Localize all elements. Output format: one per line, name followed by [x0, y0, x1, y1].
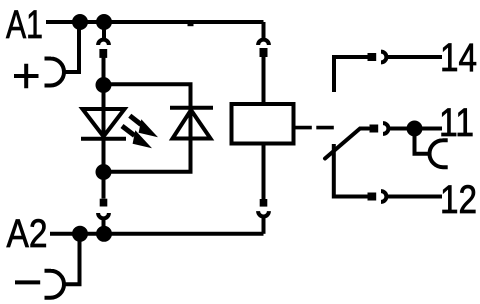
plug-in connection socket (coil input, left)	[98, 40, 109, 45]
plug-in connection socket (contact 14)	[381, 52, 386, 63]
plug-in connection pin (contact 11)	[370, 125, 379, 133]
plug-in connection pin (contact 14)	[368, 53, 377, 61]
polarity sign +	[14, 64, 39, 88]
wire A1 junction to plug-in connection	[102, 22, 106, 40]
junction node above LED	[96, 77, 112, 93]
plug-in connection pin (coil output, left)	[100, 199, 108, 207]
node tick on A1 rail	[188, 22, 194, 26]
wire A1 rail	[46, 20, 264, 24]
wire socket to label 14	[388, 55, 443, 59]
LED light arrow 2	[122, 126, 152, 148]
wire A2 rail	[50, 232, 264, 236]
wire LED branch vertical	[102, 85, 106, 172]
contact 12 fixed terminal (NC) wire	[334, 144, 368, 197]
wire socket to A2 junction	[102, 218, 106, 233]
plug-in connection pin (coil bottom)	[260, 199, 268, 207]
junction on A1 rail (left)	[72, 14, 88, 30]
clamp terminal 11 (cage clamp arc)	[430, 140, 448, 167]
svg-text:A2: A2	[7, 212, 48, 256]
wire socket to label 11	[390, 127, 443, 131]
wire from A1 junction down to + clamp	[64, 22, 80, 72]
wire socket to label 12	[388, 195, 443, 199]
plug-in connection socket (coil top)	[258, 40, 269, 45]
plug-in connection pin (coil input, left)	[99, 49, 107, 58]
clamp terminal - (cage clamp arc)	[45, 271, 65, 298]
mechanical link (dashed) coil to contact	[296, 126, 334, 130]
contact 14 fixed terminal (NO) wire	[334, 57, 368, 92]
junction on A1 rail (right)	[96, 14, 112, 30]
plug-in connection socket (contact 11)	[383, 123, 388, 134]
junction on A2 rail (right)	[96, 226, 112, 242]
free-wheeling diode	[170, 108, 213, 139]
wire junction to free-wheeling diode branch	[104, 84, 191, 172]
LED indicator diode	[81, 109, 126, 139]
wire junction down to plug-in pin	[102, 172, 106, 199]
junction on A2 rail (left)	[72, 226, 88, 242]
svg-text:A1: A1	[6, 3, 43, 47]
plug-in connection socket (contact 12)	[381, 191, 386, 202]
svg-text:14: 14	[440, 36, 477, 80]
clamp terminal + (cage clamp arc)	[45, 59, 65, 86]
wire junction 11 down to clamp	[415, 129, 431, 154]
plug-in connection pin (coil top)	[260, 48, 268, 57]
plug-in connection pin (contact 12)	[368, 193, 377, 201]
wire from A2 junction down to - clamp	[64, 234, 80, 284]
svg-text:12: 12	[440, 178, 477, 222]
wire socket to A2 rail	[262, 217, 266, 234]
plug-in connection socket (coil bottom)	[258, 211, 269, 216]
junction on wire 11	[407, 121, 423, 137]
relay coil K1	[232, 104, 294, 144]
junction node below LED	[96, 164, 112, 180]
switch arm (common contact 11)	[325, 129, 369, 159]
polarity sign -	[15, 280, 40, 284]
plug-in connection socket (coil output, left)	[98, 213, 109, 218]
wire A1 rail corner down to coil plug-in	[262, 22, 266, 40]
wire pin to junction	[102, 57, 106, 85]
LED light arrow 1	[130, 116, 158, 138]
wire relay coil down to plug-in pin	[262, 144, 266, 199]
wire pin to relay coil	[262, 57, 266, 104]
